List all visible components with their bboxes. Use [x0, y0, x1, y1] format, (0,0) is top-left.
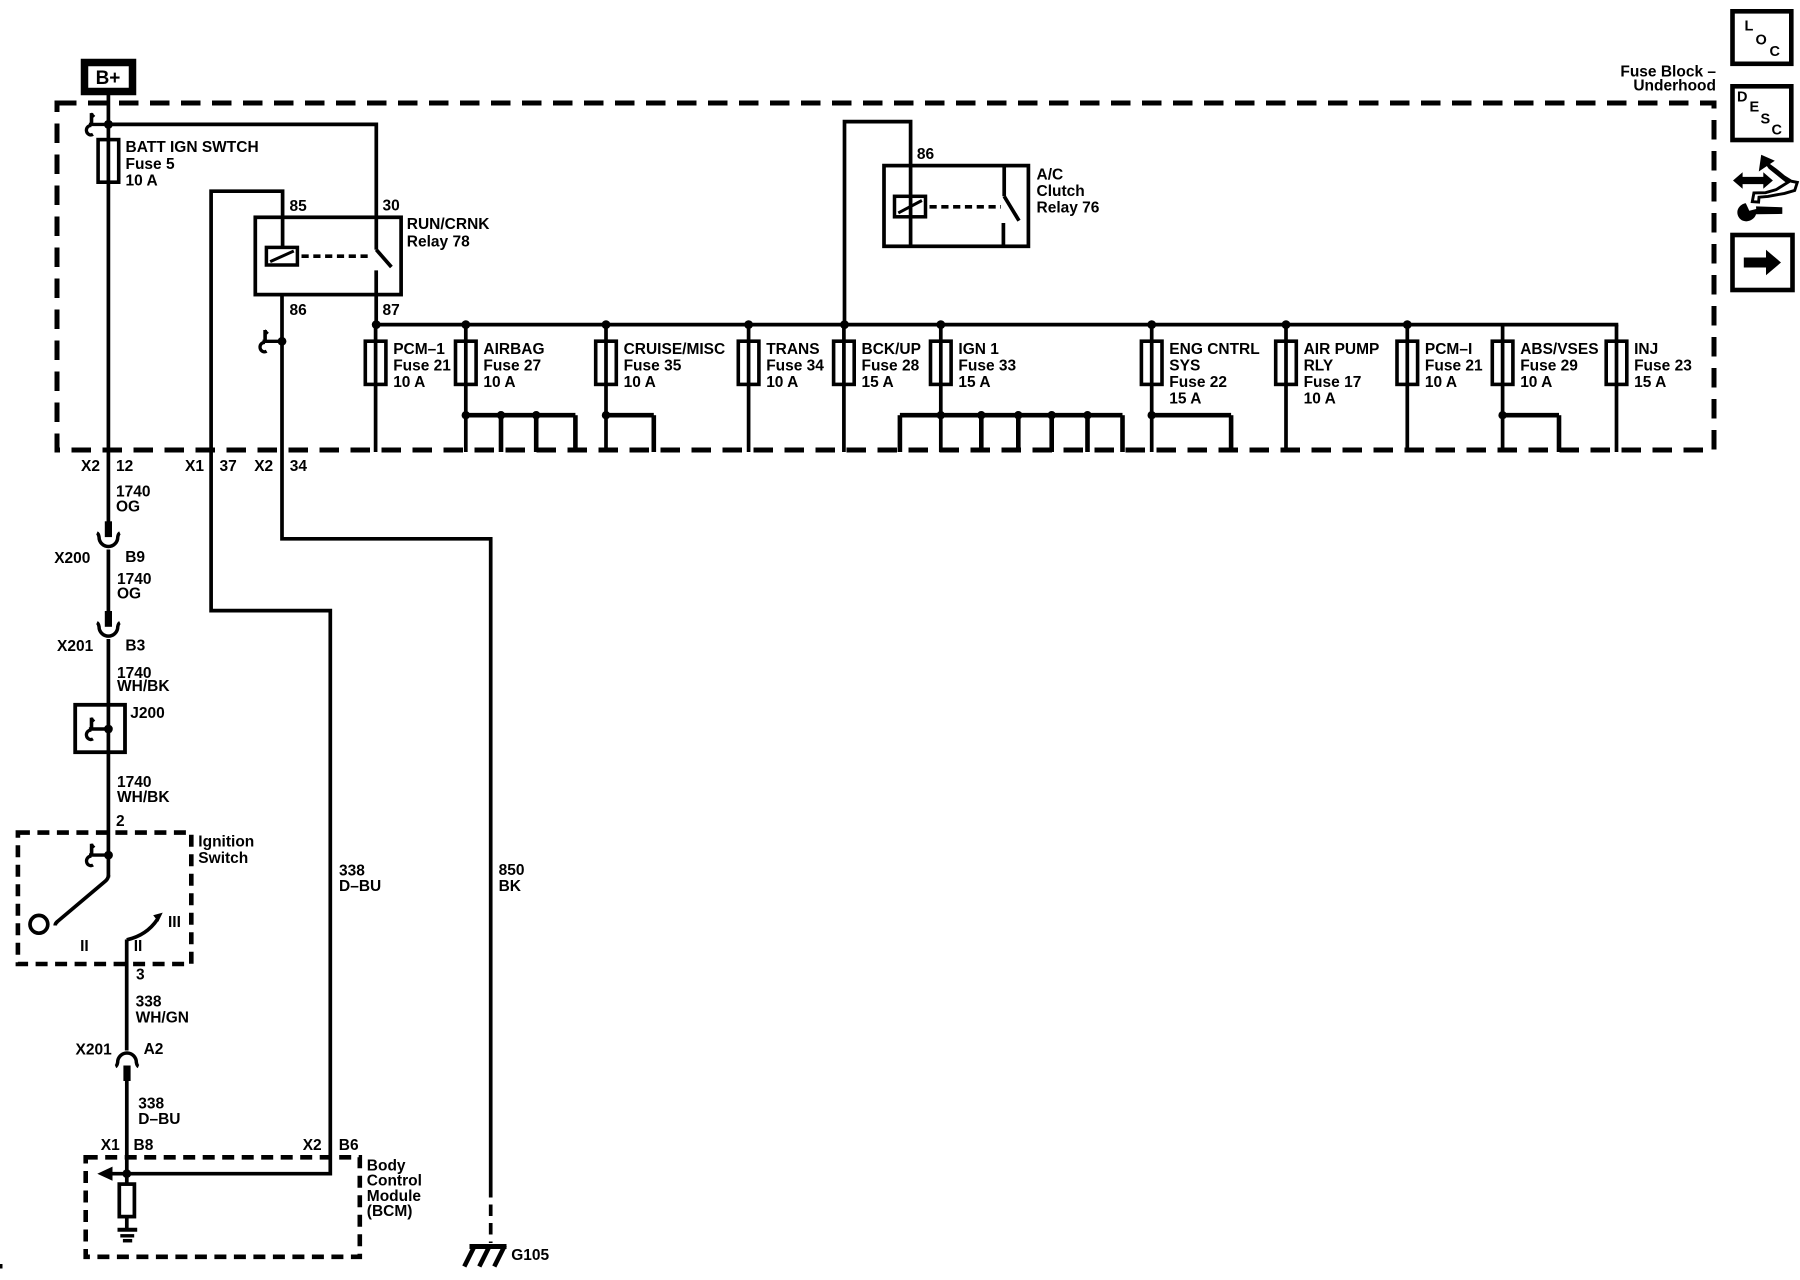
- label BCM pin X1 B8: [101, 1137, 154, 1154]
- relay 76 coil wire: [909, 166, 913, 247]
- svg-text:IGN 1: IGN 1: [958, 341, 999, 358]
- module BCM dashed box: [86, 1157, 360, 1257]
- label fuse F21b PCM-I: [1425, 341, 1483, 391]
- svg-text:30: 30: [383, 198, 400, 215]
- svg-text:X2: X2: [303, 1137, 322, 1154]
- connector X201 B3 inline: [97, 611, 120, 636]
- fuse F22 ENG CNTRL SYS: [1141, 320, 1162, 452]
- ground G105 chassis: [464, 1246, 506, 1267]
- svg-text:C: C: [1772, 123, 1783, 139]
- svg-text:15 A: 15 A: [862, 374, 894, 391]
- relay K78 RUN/CRNK box: [255, 217, 401, 294]
- fuse F5 BATT IGN SWTCH: [98, 140, 119, 183]
- svg-text:B8: B8: [134, 1137, 154, 1154]
- svg-text:Switch: Switch: [198, 850, 248, 867]
- fuse F21b PCM-I: [1397, 320, 1418, 452]
- arrowhead BCM internal: [97, 1167, 112, 1181]
- label wire 338 D-BU right: [339, 863, 381, 896]
- label fuse F22 ENG CNTRL SYS: [1169, 341, 1259, 408]
- fuse F21a PCM-1: [365, 325, 386, 452]
- connector X200 B9 inline: [97, 521, 120, 546]
- resistor BCM internal: [119, 1184, 134, 1217]
- wire BCM internal feed with arrow: [109, 1172, 330, 1176]
- svg-text:Ignition: Ignition: [198, 834, 254, 851]
- relay 76 actuation dashed link: [930, 205, 1002, 209]
- svg-text:B9: B9: [125, 549, 145, 566]
- svg-text:X1: X1: [185, 458, 204, 475]
- svg-text:X201: X201: [57, 638, 94, 655]
- svg-text:B+: B+: [96, 68, 121, 89]
- relay K76 A/C clutch box: [884, 166, 1028, 247]
- svg-text:Fuse 35: Fuse 35: [624, 357, 682, 374]
- svg-text:10 A: 10 A: [766, 374, 798, 391]
- svg-text:E: E: [1750, 99, 1760, 115]
- wire 1740 OG segment 2: [107, 550, 111, 612]
- label Body Control Module: [367, 1157, 422, 1220]
- icon box LOC: [1733, 11, 1792, 64]
- fuse feed bus from relay 87: [376, 323, 1618, 327]
- wire 338 D-BU to BCM B8: [125, 1081, 129, 1185]
- wire relay 78 pin 86 down to X2-34 exit then to G105 drop: [282, 295, 491, 1186]
- svg-text:OG: OG: [117, 585, 141, 602]
- svg-text:Underhood: Underhood: [1633, 78, 1716, 95]
- svg-text:L: L: [1745, 19, 1754, 35]
- ignition switch arm to pivot: [55, 875, 108, 926]
- svg-text:Clutch: Clutch: [1037, 183, 1085, 200]
- relay 76 switch contact stub: [1002, 166, 1006, 197]
- ignition switch position arc II to III: [127, 913, 163, 940]
- svg-text:AIRBAG: AIRBAG: [483, 341, 544, 358]
- svg-text:10 A: 10 A: [393, 374, 425, 391]
- svg-text:B3: B3: [125, 637, 145, 654]
- relay 78 pin 87 stub to bus: [374, 270, 378, 326]
- svg-text:OG: OG: [116, 499, 140, 516]
- wire 850 BK dashed continuation: [489, 1186, 493, 1243]
- svg-text:338: 338: [138, 1096, 164, 1113]
- svg-text:34: 34: [290, 458, 308, 475]
- node pin 86 clip junction: [260, 330, 286, 352]
- fuse block underhood dashed border: [57, 103, 1714, 450]
- svg-text:(BCM): (BCM): [367, 1203, 413, 1220]
- wire resistor to ground: [125, 1217, 129, 1230]
- label exit pin X2 12: [81, 458, 133, 475]
- svg-text:D: D: [1737, 90, 1747, 106]
- svg-text:III: III: [168, 914, 181, 931]
- svg-text:G105: G105: [511, 1247, 549, 1264]
- svg-text:D–BU: D–BU: [138, 1111, 180, 1128]
- svg-text:PCM–1: PCM–1: [393, 341, 445, 358]
- label fuse F29 ABS/VSES: [1520, 341, 1598, 391]
- svg-text:C: C: [1770, 44, 1781, 60]
- fuse F23 INJ: [1606, 325, 1627, 452]
- svg-text:II: II: [134, 938, 143, 955]
- svg-text:B6: B6: [339, 1137, 359, 1154]
- svg-text:Relay 78: Relay 78: [407, 234, 470, 251]
- fuse F33 IGN 1: [931, 320, 952, 452]
- svg-text:850: 850: [499, 862, 525, 879]
- svg-text:SYS: SYS: [1169, 357, 1200, 374]
- svg-text:12: 12: [116, 458, 133, 475]
- fuse F27 AIRBAG: [456, 320, 477, 452]
- fuse F35 CRUISE/MISC: [596, 320, 617, 452]
- wire output comb of fuse F29 ABS/VSES: [1498, 411, 1559, 452]
- svg-text:X201: X201: [76, 1042, 113, 1059]
- svg-text:RUN/CRNK: RUN/CRNK: [407, 216, 490, 233]
- node ignition switch clip junction: [87, 844, 113, 866]
- svg-text:Fuse 21: Fuse 21: [393, 357, 451, 374]
- svg-text:Relay 76: Relay 76: [1037, 200, 1100, 217]
- connector clip at B+ branch: [86, 113, 112, 135]
- svg-text:TRANS: TRANS: [766, 341, 819, 358]
- relay 78 switch blade: [376, 250, 391, 267]
- svg-text:15 A: 15 A: [958, 374, 990, 391]
- svg-text:15 A: 15 A: [1169, 390, 1201, 407]
- svg-text:O: O: [1756, 32, 1767, 48]
- svg-text:10 A: 10 A: [1425, 374, 1457, 391]
- svg-text:Fuse 21: Fuse 21: [1425, 357, 1483, 374]
- svg-text:X200: X200: [54, 550, 90, 567]
- label fuse F35 CRUISE/MISC: [624, 341, 726, 391]
- label relay 76: [1037, 167, 1100, 217]
- label exit pin X2 34: [254, 458, 307, 475]
- fuse F28 BCK/UP: [834, 325, 855, 452]
- svg-text:86: 86: [917, 146, 935, 163]
- svg-text:WH/GN: WH/GN: [136, 1010, 189, 1027]
- icon service tool arrows and wrench: [1733, 155, 1797, 222]
- relay 78 actuation dashed link: [302, 254, 372, 258]
- svg-text:338: 338: [339, 863, 365, 880]
- label wire 338 D-BU left: [138, 1096, 180, 1129]
- wire output comb of fuse F27 AIRBAG: [462, 411, 576, 452]
- node bus tap A/C relay and fuse 28: [840, 320, 849, 329]
- label Ignition Switch: [198, 834, 254, 868]
- label fuse 5: [126, 139, 259, 189]
- svg-text:Fuse 29: Fuse 29: [1520, 357, 1578, 374]
- label wire 1740 OG upper: [116, 483, 150, 515]
- svg-text:85: 85: [290, 198, 308, 215]
- svg-text:10 A: 10 A: [483, 374, 515, 391]
- svg-text:X2: X2: [254, 458, 273, 475]
- svg-text:X1: X1: [101, 1137, 120, 1154]
- svg-text:10 A: 10 A: [126, 172, 158, 189]
- svg-text:10 A: 10 A: [624, 374, 656, 391]
- wire relay 78 pin 85 to X1-37 exit, down to BCM pin B6: [211, 191, 330, 1175]
- relay 76 coil: [895, 196, 926, 217]
- label relay 78: [407, 216, 490, 251]
- label wire 1740 OG lower: [117, 571, 151, 602]
- relay 76 switch blade: [1004, 196, 1019, 220]
- wire output comb of fuse F33 IGN 1: [900, 411, 1123, 452]
- label Fuse Block Underhood: [1620, 64, 1716, 95]
- wire output comb of fuse F22 ENG CNTRL SYS: [1148, 411, 1232, 452]
- label fuse F27 AIRBAG: [483, 341, 544, 391]
- svg-text:Fuse 23: Fuse 23: [1634, 357, 1692, 374]
- svg-text:ABS/VSES: ABS/VSES: [1520, 341, 1598, 358]
- svg-text:Fuse 33: Fuse 33: [958, 357, 1016, 374]
- splice pack J200: [75, 705, 125, 752]
- label wire 1740 WH/BK lower: [117, 774, 170, 806]
- svg-text:37: 37: [220, 458, 237, 475]
- svg-text:D–BU: D–BU: [339, 878, 381, 895]
- label BCM pin X2 B6: [303, 1137, 359, 1154]
- fuse F29 ABS/VSES: [1492, 325, 1513, 452]
- svg-text:X2: X2: [81, 458, 100, 475]
- svg-text:3: 3: [136, 966, 145, 983]
- wire A/C relay feed from bus: [845, 122, 911, 325]
- svg-text:RLY: RLY: [1304, 357, 1334, 374]
- label fuse F23 INJ: [1634, 341, 1692, 391]
- ignition switch dashed box: [18, 833, 191, 964]
- svg-text:15 A: 15 A: [1634, 374, 1666, 391]
- svg-text:AIR PUMP: AIR PUMP: [1304, 341, 1380, 358]
- svg-text:86: 86: [290, 302, 308, 319]
- svg-text:A/C: A/C: [1037, 167, 1064, 184]
- label connector X201 B3: [57, 637, 146, 655]
- node BCM B8 junction: [122, 1169, 131, 1178]
- svg-text:338: 338: [136, 994, 162, 1011]
- svg-text:II: II: [80, 938, 89, 955]
- fuse F17 AIR PUMP RLY: [1276, 320, 1297, 452]
- svg-text:A2: A2: [144, 1041, 164, 1058]
- svg-text:10 A: 10 A: [1304, 390, 1336, 407]
- svg-text:BATT IGN SWTCH: BATT IGN SWTCH: [126, 139, 259, 156]
- svg-text:INJ: INJ: [1634, 341, 1658, 358]
- fuse F34 TRANS: [738, 320, 759, 452]
- ground BCM internal: [118, 1230, 138, 1241]
- battery feed terminal B+: [85, 63, 133, 92]
- node bus at relay 87: [372, 320, 381, 329]
- relay 78 coil: [266, 247, 297, 265]
- label wire 338 WH/GN: [136, 994, 189, 1027]
- svg-text:2: 2: [116, 813, 125, 830]
- label connector X200 B9: [54, 549, 145, 567]
- node branch at B+ feed: [104, 120, 113, 129]
- label fuse F21a PCM-1: [393, 341, 451, 391]
- label exit pin X1 37: [185, 458, 237, 475]
- svg-text:WH/BK: WH/BK: [117, 789, 170, 806]
- label wire 1740 WH/BK upper: [117, 665, 170, 695]
- wire B+ to Fuse 5 and down to connector X200: [107, 92, 111, 523]
- svg-text:Fuse 34: Fuse 34: [766, 357, 824, 374]
- label fuse F34 TRANS: [766, 341, 824, 391]
- label fuse F33 IGN 1: [958, 341, 1016, 391]
- svg-text:ENG CNTRL: ENG CNTRL: [1169, 341, 1259, 358]
- relay 78 pin 30 wire into switch: [374, 217, 378, 249]
- svg-text:10 A: 10 A: [1520, 374, 1552, 391]
- svg-text:S: S: [1761, 111, 1771, 127]
- wire 1740 WH/BK segment: [107, 639, 111, 878]
- page edge artifact: [0, 1264, 3, 1269]
- label wire 850 BK: [499, 862, 525, 895]
- label fuse F28 BCK/UP: [862, 341, 921, 391]
- ignition switch pivot circle: [30, 915, 48, 933]
- wire output comb of fuse F35 CRUISE/MISC: [602, 411, 654, 452]
- label fuse F17 AIR PUMP RLY: [1304, 341, 1380, 408]
- svg-text:J200: J200: [130, 705, 164, 722]
- svg-text:CRUISE/MISC: CRUISE/MISC: [624, 341, 726, 358]
- svg-text:BK: BK: [499, 878, 522, 895]
- label connector X201 A2: [76, 1041, 164, 1058]
- svg-text:Fuse 17: Fuse 17: [1304, 374, 1362, 391]
- icon box DESC: [1733, 86, 1792, 140]
- node J200 splice clip: [86, 718, 112, 740]
- svg-text:PCM–I: PCM–I: [1425, 341, 1472, 358]
- svg-text:Fuse 28: Fuse 28: [862, 357, 920, 374]
- svg-text:Fuse 27: Fuse 27: [483, 357, 541, 374]
- svg-text:Fuse 5: Fuse 5: [126, 156, 175, 173]
- relay 76 switch lower stub: [1002, 223, 1006, 246]
- icon box forward arrow: [1733, 235, 1793, 290]
- svg-text:BCK/UP: BCK/UP: [862, 341, 921, 358]
- wire branch to relay pin 30: [108, 124, 376, 217]
- wire ignition pin 3 down: [125, 940, 129, 1051]
- connector X201 A2 inline: [116, 1053, 139, 1081]
- svg-text:WH/BK: WH/BK: [117, 678, 170, 695]
- svg-text:Fuse 22: Fuse 22: [1169, 374, 1227, 391]
- svg-text:87: 87: [383, 302, 400, 319]
